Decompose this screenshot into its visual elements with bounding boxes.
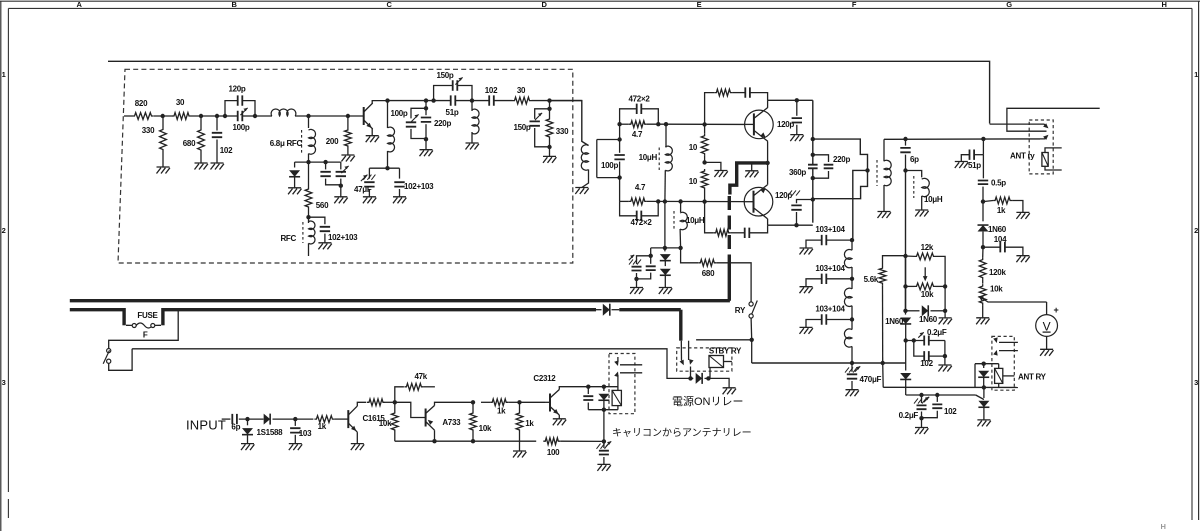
wire T1 sec bot: [597, 177, 620, 179]
fuse: [132, 324, 136, 328]
node K6: [904, 338, 908, 342]
diode 1N60 v: [905, 311, 907, 315]
ground c2312: [553, 419, 566, 426]
wire trim-gnd: [340, 186, 342, 197]
core T1: [596, 140, 598, 178]
node C9: [547, 107, 551, 111]
ground 220p: [420, 150, 433, 157]
thick emitter ground path: [730, 163, 768, 195]
wire 150p branch: [434, 86, 453, 101]
node R6: [471, 439, 475, 443]
diode D1: [294, 162, 296, 167]
svg-text:103: 103: [299, 429, 312, 438]
node R5: [471, 400, 475, 404]
antry contact1: [999, 341, 1018, 343]
cap carrier: [603, 441, 605, 448]
node P1: [688, 376, 692, 380]
inductor 10uH top: [665, 124, 667, 147]
wire pon gnd: [708, 378, 729, 387]
ground 103104 b: [800, 287, 813, 294]
trimmer 150p: [453, 80, 458, 90]
svg-text:472×2: 472×2: [631, 218, 653, 227]
transistor Q1: [363, 107, 365, 125]
svg-text:100p: 100p: [601, 161, 618, 170]
cap 120p bot: [797, 200, 813, 204]
wire dio-node: [982, 232, 984, 248]
ground T1: [575, 188, 588, 195]
ground clamp in: [241, 444, 254, 451]
node A5: [253, 114, 257, 118]
cap 0.2uF b: [921, 395, 923, 403]
wire Q2 collector: [767, 100, 769, 107]
svg-text:47μF: 47μF: [354, 185, 372, 194]
ground D1: [288, 188, 301, 195]
svg-text:1k: 1k: [318, 422, 327, 431]
svg-text:102: 102: [220, 146, 233, 155]
relay coil STBY: [709, 356, 724, 368]
node A6: [306, 114, 310, 118]
node C5: [424, 137, 428, 141]
svg-text:103+104: 103+104: [815, 225, 845, 234]
svg-text:220p: 220p: [833, 155, 850, 164]
resistor 10k c: [470, 411, 477, 432]
feedback bottom: [705, 202, 714, 233]
svg-text:120p: 120p: [228, 85, 245, 94]
node C10: [547, 145, 551, 149]
ground 103104 c: [800, 327, 813, 334]
svg-text:1k: 1k: [497, 407, 506, 416]
node N4: [634, 277, 638, 281]
inductor 10uH bot: [680, 202, 682, 213]
ground mid10: [714, 171, 727, 178]
svg-text:120p: 120p: [777, 120, 794, 129]
ground 47uF: [363, 197, 376, 204]
diode power line: [603, 304, 610, 316]
ground 102+103 a: [318, 243, 331, 250]
resistor 4.7 top: [629, 121, 647, 128]
wire k col gnd: [944, 286, 946, 318]
ground capN: [630, 288, 643, 295]
resistor 200: [345, 128, 352, 148]
ground 102c: [938, 365, 951, 372]
capacitor 102a: [325, 162, 327, 169]
antry contact2: [999, 350, 1018, 352]
svg-text:4.7: 4.7: [632, 130, 643, 139]
resistor 330: [160, 128, 167, 152]
ground 680: [195, 163, 208, 170]
inductor L1: [271, 109, 296, 116]
wire 220p gnd: [425, 139, 427, 150]
svg-text:ANT RY: ANT RY: [1018, 373, 1047, 382]
node A1: [161, 114, 165, 118]
svg-text:B: B: [231, 0, 237, 9]
svg-text:C2312: C2312: [533, 374, 556, 383]
node A4: [223, 114, 227, 118]
transistor A733: [425, 409, 427, 427]
cap N2: [650, 256, 652, 264]
ground 51p b: [955, 162, 968, 169]
wire c1615 col: [357, 402, 366, 406]
core balun: [876, 160, 878, 186]
diode 1N60 r: [982, 202, 984, 222]
wire L1-node: [295, 115, 348, 117]
ground diode stack: [659, 288, 672, 295]
svg-text:103+104: 103+104: [815, 305, 845, 314]
node G4: [811, 176, 815, 180]
node K7: [912, 338, 916, 342]
node K4: [903, 309, 907, 313]
svg-text:0.2μF: 0.2μF: [899, 411, 919, 420]
svg-text:150p: 150p: [436, 71, 453, 80]
node L2: [935, 393, 939, 397]
wire sw drop: [109, 310, 179, 349]
ground 330 b: [543, 156, 556, 163]
node R4: [432, 439, 436, 443]
svg-text:1S1588: 1S1588: [257, 428, 284, 437]
diode lower right: [983, 387, 985, 398]
node B3: [339, 184, 343, 188]
node R9: [602, 385, 606, 389]
resistor 560: [305, 187, 312, 209]
pot 10k mid: [915, 283, 936, 290]
wire coil stubs top: [1045, 148, 1062, 153]
node A2: [199, 114, 203, 118]
svg-text:1N60: 1N60: [988, 225, 1007, 234]
ground lower right: [977, 420, 990, 427]
wire pot gnd: [982, 305, 984, 318]
cap 102 d: [936, 395, 938, 402]
wire relay bottom row: [588, 409, 618, 411]
thick line2 right: [163, 308, 596, 311]
node B4: [306, 215, 310, 219]
svg-text:FUSE: FUSE: [137, 311, 158, 320]
svg-text:472×2: 472×2: [629, 95, 651, 104]
diode bias bottom: [900, 373, 911, 380]
shield box dashed: [118, 69, 573, 263]
node thick emitter: [765, 161, 769, 165]
wire bot bias row: [619, 178, 621, 202]
node F3: [702, 199, 706, 203]
gnd tap mid: [705, 162, 721, 170]
ground 120p top: [790, 135, 803, 142]
wire c2312 base: [520, 401, 546, 403]
wire bottom collector rail: [768, 224, 813, 226]
svg-text:12k: 12k: [921, 243, 934, 252]
resistor 120k: [979, 258, 986, 280]
wire bias col3: [905, 341, 907, 371]
node H4: [981, 199, 985, 203]
inductor RFC2: [308, 217, 310, 223]
node B2: [323, 160, 327, 164]
node K1: [903, 254, 907, 258]
inductor T1 primary: [581, 145, 588, 170]
cap 6p: [905, 139, 907, 146]
svg-text:1: 1: [1194, 70, 1198, 79]
node F1: [702, 122, 706, 126]
cap 472x2 bot: [620, 201, 637, 215]
wire diode row: [651, 247, 681, 249]
cap 6p in: [232, 414, 237, 424]
ground balun: [878, 212, 891, 219]
wire bottom rail amp: [395, 440, 536, 442]
wire Q2 emitter: [767, 142, 769, 163]
STBY RY box: [677, 348, 732, 371]
ANT RY box: [992, 336, 1014, 390]
node E3: [664, 122, 668, 126]
node R3: [393, 400, 397, 404]
wire antry top row: [975, 363, 999, 365]
svg-text:1N60: 1N60: [919, 315, 938, 324]
ground Tb: [334, 197, 347, 204]
diode 1N60 h: [906, 310, 920, 312]
wire 102c gnd: [944, 356, 946, 365]
wire 120p branch: [225, 101, 238, 116]
capacitor 102 b: [489, 95, 494, 105]
wire RY down: [750, 318, 753, 340]
cap 47uF: [368, 168, 370, 178]
cap 51p b: [982, 139, 984, 155]
ground 1k d: [513, 451, 526, 458]
cap 470uF: [851, 363, 853, 372]
resistor 1k c: [490, 399, 508, 406]
svg-text:120k: 120k: [989, 268, 1006, 277]
wire 883 drop: [882, 363, 885, 387]
trimmer cap Tb: [340, 162, 342, 169]
ground L3: [466, 143, 479, 150]
node R11: [602, 439, 606, 443]
svg-text:150p: 150p: [513, 123, 530, 132]
svg-text:10μH: 10μH: [639, 153, 658, 162]
meter V: [1036, 315, 1058, 337]
svg-text:10k: 10k: [479, 424, 492, 433]
svg-text:A733: A733: [442, 418, 461, 427]
diode power on: [691, 377, 694, 379]
wire pwr contact stub: [617, 357, 619, 362]
trimmer 100p b: [411, 108, 426, 118]
svg-text:D: D: [541, 0, 547, 9]
node K8: [943, 354, 947, 358]
svg-text:10k: 10k: [921, 290, 934, 299]
svg-text:2: 2: [1194, 226, 1198, 235]
wire RY to chain: [751, 340, 753, 363]
cap relay par: [587, 387, 589, 394]
node R8: [586, 385, 590, 389]
inductor L3: [471, 101, 473, 111]
cap 360p: [808, 165, 818, 169]
feedback top: [705, 93, 715, 125]
node R7: [517, 400, 521, 404]
inductor chain2: [844, 288, 852, 306]
svg-text:2: 2: [2, 226, 6, 235]
node A3: [215, 114, 219, 118]
wire collector rail: [388, 100, 451, 102]
node G3: [811, 153, 815, 157]
ground c1615: [351, 444, 364, 451]
pwr contact2: [620, 372, 642, 374]
wire input row: [124, 115, 133, 117]
svg-text:30: 30: [176, 98, 185, 107]
ground 330: [157, 167, 170, 174]
wire input start: [222, 418, 231, 420]
svg-text:103+104: 103+104: [815, 264, 845, 273]
svg-text:INPUT: INPUT: [186, 418, 226, 433]
node C4: [424, 106, 428, 110]
svg-text:102: 102: [944, 407, 957, 416]
pot wiper mid: [924, 267, 926, 278]
node R2: [293, 417, 297, 421]
node J1: [850, 238, 854, 242]
svg-text:102: 102: [485, 86, 498, 95]
svg-text:4.7: 4.7: [635, 183, 646, 192]
resistor 30 b: [513, 97, 532, 104]
resistor 1k in: [314, 416, 334, 423]
wire lower pair row: [906, 394, 976, 396]
node E6: [678, 199, 682, 203]
svg-text:104: 104: [994, 235, 1007, 244]
wire Q1 base: [348, 115, 364, 117]
cap 102 c: [914, 341, 924, 357]
ground carrier: [597, 464, 610, 471]
inductor balun coil: [883, 139, 885, 161]
node G2: [811, 137, 815, 141]
node A7: [346, 114, 350, 118]
node N3: [649, 254, 653, 258]
wire 30-caps: [191, 115, 225, 117]
capacitor 51p: [451, 95, 456, 105]
node L1: [919, 393, 923, 397]
trim cap N: [637, 256, 651, 264]
svg-text:10k: 10k: [990, 285, 1003, 294]
svg-text:5.6k: 5.6k: [864, 275, 879, 284]
svg-text:G: G: [1006, 0, 1012, 9]
node C2: [385, 166, 389, 170]
node L3: [919, 416, 923, 420]
thick shield solid: [70, 266, 730, 301]
cap 102+103 b: [399, 168, 401, 178]
wire 0.5p col: [982, 155, 984, 179]
wire chain row: [752, 362, 906, 364]
ground thick1: [745, 171, 758, 178]
node D2b: [617, 175, 621, 179]
svg-text:電源ONリレー: 電源ONリレー: [672, 394, 744, 408]
diode series in: [264, 414, 271, 425]
cap 220p b: [813, 155, 829, 162]
wire c1615 em: [356, 432, 358, 444]
node C6: [431, 98, 435, 102]
svg-text:100p: 100p: [232, 123, 249, 132]
inductor 10uH c: [906, 171, 922, 178]
transistor C1615: [347, 410, 349, 428]
svg-text:30: 30: [517, 86, 526, 95]
wire stby contact drop: [690, 367, 692, 379]
node G6: [794, 223, 798, 227]
svg-text:0.2μF: 0.2μF: [927, 328, 947, 337]
switch RY: [749, 302, 753, 306]
PWR relay box: [609, 354, 635, 414]
svg-text:E: E: [697, 0, 702, 9]
svg-text:10μH: 10μH: [924, 195, 943, 204]
svg-text:キャリコンからアンテナリレー: キャリコンからアンテナリレー: [612, 427, 752, 439]
resistor 330 b: [546, 117, 553, 139]
relay coil top: [1042, 153, 1048, 167]
ground 103104 a: [800, 248, 813, 255]
svg-text:102: 102: [920, 359, 933, 368]
resistor 680: [198, 128, 205, 152]
svg-text:120p: 120p: [775, 191, 792, 200]
node G5: [811, 197, 815, 201]
ground 1k r: [1016, 212, 1029, 219]
wire sw out: [109, 349, 132, 371]
pwr contact1: [620, 364, 642, 366]
capacitor 102+103 a: [309, 217, 325, 224]
cap 103 in: [294, 419, 296, 426]
wire a733 col: [434, 430, 436, 441]
svg-text:47k: 47k: [414, 372, 427, 381]
wire top bias row: [619, 124, 621, 139]
wire top supply bus: [108, 61, 990, 123]
svg-text:820: 820: [135, 99, 148, 108]
svg-text:10: 10: [689, 177, 698, 186]
ground 103 in: [289, 444, 302, 451]
wire top collector rail: [768, 99, 813, 101]
resistor 10 a: [701, 134, 708, 156]
svg-text:10k: 10k: [379, 419, 392, 428]
transistor C2312: [549, 394, 551, 412]
diode stack b: [664, 261, 666, 266]
node N1: [663, 246, 667, 250]
gnd stem thick: [751, 163, 753, 171]
svg-text:1k: 1k: [525, 419, 534, 428]
node B1: [306, 160, 310, 164]
node J4: [850, 361, 854, 365]
svg-text:102+103: 102+103: [328, 233, 358, 242]
stby contacts: [680, 341, 682, 361]
relay coil ANT RY: [995, 368, 1003, 383]
resistor 1k r: [993, 197, 1012, 204]
wire in1: [239, 418, 264, 420]
ground 02b: [915, 428, 928, 435]
switch power: [107, 349, 111, 353]
wire T1 sec top: [597, 139, 620, 141]
pot 10k r: [979, 284, 986, 305]
node C3: [424, 98, 428, 102]
wire Q1 emitter: [371, 129, 373, 136]
ground 470uF: [846, 390, 859, 397]
ground 102 input: [211, 163, 224, 170]
node H3: [981, 137, 985, 141]
diode clamp in: [247, 419, 249, 425]
svg-text:10: 10: [689, 143, 698, 152]
svg-text:F: F: [143, 331, 148, 340]
wire top base: [666, 123, 745, 125]
wire Q3 emitter: [767, 163, 769, 185]
node N2: [678, 246, 682, 250]
svg-text:680: 680: [183, 139, 196, 148]
node E1: [617, 122, 621, 126]
cap 0.5p: [978, 181, 988, 185]
node H1: [903, 137, 907, 141]
node E2: [656, 122, 660, 126]
wire stby top row: [696, 339, 752, 341]
wire diode feed: [664, 202, 666, 248]
wire capsL stub: [650, 248, 652, 256]
ground 102+103 b: [393, 197, 406, 204]
wire drop 603: [603, 410, 605, 442]
ground meter: [1040, 349, 1053, 356]
svg-text:51p: 51p: [446, 108, 459, 117]
wire Q1 collector: [372, 101, 387, 104]
wire bias column: [905, 171, 907, 311]
